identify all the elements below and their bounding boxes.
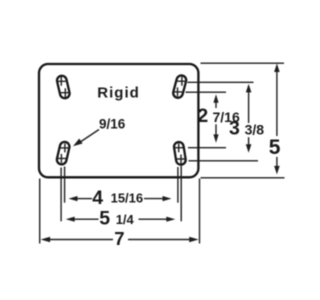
screw cross TL inner (61, 88, 70, 97)
dim 4 15/16 left arrow (69, 196, 78, 201)
svg-text:4: 4 (92, 187, 103, 209)
dim 5 1/4 left arrow (66, 217, 75, 222)
svg-text:2: 2 (197, 105, 208, 127)
leader 9/16 line (80, 130, 100, 143)
dim 5 arrow up (276, 70, 278, 136)
dim 5 arrow down (276, 157, 278, 167)
dim 7 left arrow (41, 237, 51, 243)
ext line plate right down (199, 179, 201, 244)
svg-text:Rigid: Rigid (97, 85, 140, 102)
ext line plate left down (39, 179, 41, 244)
svg-text:5: 5 (269, 136, 281, 159)
svg-text:15/16: 15/16 (111, 190, 144, 205)
ext line BR inner down (177, 167, 179, 203)
svg-text:7: 7 (114, 228, 124, 249)
screw cross BL outer (57, 154, 66, 163)
screw cross BR inner (174, 143, 183, 152)
slot hole top-left (56, 75, 70, 99)
ext line BR outer down (180, 166, 182, 221)
svg-text:3/8: 3/8 (245, 121, 265, 137)
slot hole bottom-left (56, 141, 70, 165)
screw cross TR inner (173, 87, 182, 96)
screw cross BR outer (177, 155, 186, 164)
ext line bottom edge right (201, 177, 285, 179)
screw cross TR outer (177, 77, 186, 86)
svg-text:5: 5 (99, 208, 110, 230)
ext line BR inner right (188, 147, 226, 149)
ext line BL outer down (60, 168, 62, 222)
svg-text:1/4: 1/4 (116, 212, 135, 227)
svg-text:3: 3 (229, 117, 240, 139)
ext line top edge right (201, 62, 285, 64)
slot hole bottom-right (173, 141, 186, 165)
svg-text:9/16: 9/16 (99, 116, 126, 131)
ext line BR outer right (189, 160, 259, 162)
ext line TR inner right (186, 91, 227, 93)
dim 3 3/8 arrow down (248, 137, 250, 145)
plate outline (39, 64, 198, 177)
ext line BL inner down (64, 167, 66, 203)
dim 5 1/4 right arrow (139, 218, 168, 220)
leader 9/16 arrowhead (73, 139, 83, 147)
ext line TR outer right (188, 81, 254, 83)
screw cross TL outer (57, 77, 66, 86)
slot hole top-right (172, 74, 187, 99)
dim 2 7/16 arrow down (215, 124, 217, 135)
dim 7 right arrow (128, 239, 190, 241)
dim 3 3/8 arrow up (248, 91, 250, 123)
screw cross BL inner (60, 143, 69, 152)
dim 4 15/16 right arrow (144, 198, 164, 200)
dim 2 7/16 arrow up (215, 101, 217, 108)
